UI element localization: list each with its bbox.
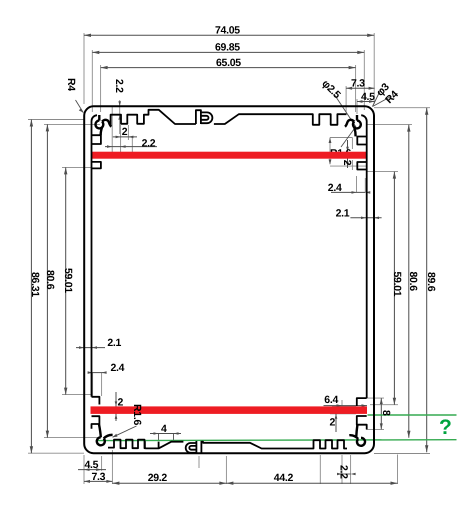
red bar top (PCB slot highlight) [92,152,367,159]
svg-text:4.5: 4.5 [361,91,375,103]
dim 4 bottom bump [150,433,181,435]
svg-text:2.2: 2.2 [338,465,350,479]
svg-text:2.1: 2.1 [107,337,121,349]
right wall top slot fingers [357,137,366,170]
dim 2.2 top horizontal [105,146,157,148]
ext 69.85 right [363,50,365,110]
svg-text:2.4: 2.4 [328,182,342,194]
ext bottom snap [198,456,200,468]
dim 6.4 right [324,405,368,407]
dim 2 tr red [347,140,349,168]
svg-text:2: 2 [330,417,336,429]
dim 86.31 [30,120,32,454]
svg-text:7.3: 7.3 [92,471,106,483]
dim 69.85 [92,51,364,53]
ext left 2.4 verticals [93,373,102,396]
red bar bottom (PCB slot highlight) [91,406,368,414]
ext 86.31 top [28,119,84,121]
svg-text:89.6: 89.6 [425,272,437,292]
ext top tooth verticals [112,107,132,152]
ext bottom left shared x84 [83,455,85,484]
screw hook top-left [96,115,112,135]
dim 2.2 bottom pair arrows [342,473,351,475]
svg-text:R1.6: R1.6 [131,404,143,425]
ext bottom 7.3 right [111,450,113,484]
dim 2 bl red [115,392,117,421]
screw hook bottom-right [349,425,365,446]
top middle snap slot [196,110,201,124]
dim 65.05 [101,67,356,69]
dim 89.6 R [426,108,428,453]
leader R1.6 top-right [341,129,355,148]
ext top-right red 2 box [330,138,366,171]
dim 59.01 R [393,172,395,405]
dim 2.4 right [331,191,365,193]
dim 7.3 bottom [84,480,112,482]
svg-text:2: 2 [341,160,353,166]
svg-text:4: 4 [161,423,167,435]
ext 8dim bottom [366,428,384,430]
svg-text:6.4: 6.4 [324,394,338,406]
dim 2.1 left wall [76,347,105,349]
dim 8 right [380,398,382,429]
ext br horizontals [330,406,356,413]
dim 44.2 bottom [226,482,397,484]
leader phi3 [373,89,382,107]
left wall inner line [91,121,93,397]
extension lines (thin gray) [28,33,430,484]
ext bottom 44.2 right [397,455,399,485]
dim 80.6 L [46,124,48,437]
ext 59.01L top [62,166,92,168]
bottom bump notch [145,442,159,449]
dim 59.01 L [65,167,67,394]
dim 2 top teeth [113,136,137,138]
svg-text:59.01: 59.01 [391,272,403,297]
svg-text:7.3: 7.3 [351,78,365,90]
left wall bottom slot fingers [92,397,100,429]
ext 80.6R top [366,124,412,126]
svg-text:R4: R4 [65,78,77,91]
dim 29.2 bottom [112,482,226,484]
ext 4.5 left [356,99,358,114]
dim 2.4 left [90,372,104,374]
leader lines [76,89,391,437]
ext br 6.4 [341,400,343,412]
top wall inner surface with teeth [111,110,347,126]
leader R1.6 bottom-left [113,426,137,437]
outer rounded rectangle [84,106,374,453]
dim 80.6 R [408,125,410,438]
right wall inner line [366,121,368,398]
ext bl red 2 verticals [115,392,117,421]
top-right corner inner arc [361,115,367,121]
dimension lines with arrows (darker) [30,34,429,485]
svg-text:2.2: 2.2 [142,138,156,150]
dim 7.3 top [346,87,375,89]
green annotation line 2 [96,439,457,442]
svg-text:2.2: 2.2 [113,79,125,93]
svg-text:44.2: 44.2 [274,472,294,484]
dim 74.05 [84,34,374,36]
svg-text:69.85: 69.85 [215,42,240,54]
ext 89.6 top [374,107,430,109]
ext 65.05 right [355,65,357,112]
green annotation line 1 [368,414,457,416]
screw hook top-right [345,115,361,136]
dim 4.5 top [357,101,375,103]
svg-text:?: ? [439,416,452,439]
right wall bottom slot fingers [357,398,367,429]
dim 4.5 bottom [78,469,106,471]
ext bottom 4.5 right [101,456,103,471]
ext 7.3 left [345,86,347,112]
ext 80.6L top [44,123,100,125]
ext 69.85 left [91,50,93,112]
ext 89.6 bottom [374,453,430,455]
ext 74.05 left [83,33,85,104]
ext right 2.4 verticals [357,176,366,192]
ext bottom 2.2 pair [320,455,350,484]
svg-text:59.01: 59.01 [62,268,74,293]
ext 80.6L bottom [44,437,100,439]
svg-text:2.4: 2.4 [111,362,125,374]
svg-text:2.1: 2.1 [336,207,350,219]
leader phi2.5 [334,94,356,127]
bottom middle snap slot [196,441,201,454]
svg-text:29.2: 29.2 [148,472,168,484]
top-left corner inner arc [92,115,98,121]
svg-text:65.05: 65.05 [216,57,241,69]
leader R4 top-left [76,100,84,113]
ext 86.31 bottom [28,452,84,454]
svg-text:4.5: 4.5 [85,459,99,471]
main profile outline [84,106,374,453]
svg-text:φ2.5: φ2.5 [319,78,343,102]
ext 59.01R bottom [370,404,398,406]
svg-text:2: 2 [122,126,128,138]
svg-text:2: 2 [118,397,124,409]
dim arrows tr box [329,138,332,165]
bottom wall inner surface with teeth [108,440,347,449]
ext top-left 2.2 vertical [119,100,121,134]
bottom middle snap hook [186,443,197,453]
screw hook bottom-left [97,424,113,445]
dimension texts [29,25,437,484]
svg-text:8: 8 [380,410,392,416]
leader R4 right [373,97,391,107]
svg-text:86.31: 86.31 [29,272,41,297]
svg-text:80.6: 80.6 [407,272,419,292]
ext 59.01R top [366,171,398,173]
ext bottom 29.2 right [225,456,227,484]
ext 74.05 right [373,33,375,104]
dim 2.1 right wall [350,217,381,219]
dim 2 br red [335,407,337,432]
svg-text:74.05: 74.05 [215,25,240,37]
dim 2.2 vertical top-left arrows [118,101,121,119]
ext 65.05 left [100,65,102,112]
left wall top slot fingers [92,135,101,168]
top middle snap hook [201,112,213,123]
ext 8dim top [367,397,384,399]
svg-text:80.6: 80.6 [44,270,56,290]
ext 59.01L bottom [62,394,92,396]
